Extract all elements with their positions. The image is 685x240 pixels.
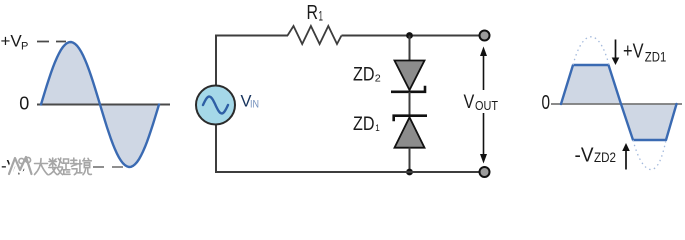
wire zener branch upper bbox=[409, 36, 411, 62]
wire bottom bbox=[215, 171, 480, 173]
arrow down to +Vzd1 level bbox=[612, 40, 620, 66]
output axis line bbox=[551, 103, 682, 105]
resistor R1 bbox=[288, 26, 342, 44]
wire top bbox=[215, 35, 288, 37]
dotted clipped trough bbox=[633, 140, 666, 170]
terminal top right bbox=[480, 31, 490, 41]
dotted clipped peak bbox=[573, 37, 609, 65]
wire between zeners bbox=[409, 92, 411, 116]
svg-text:0: 0 bbox=[542, 92, 551, 114]
Vout arrow lower bbox=[480, 113, 487, 164]
svg-text:ZD: ZD bbox=[353, 63, 375, 85]
svg-text:ZD1: ZD1 bbox=[645, 49, 667, 64]
circuit group bbox=[196, 2, 498, 177]
svg-text:1: 1 bbox=[319, 8, 324, 24]
arrow up from -Vzd2 level bbox=[622, 143, 630, 170]
node junction bottom bbox=[406, 169, 413, 176]
svg-text:1: 1 bbox=[375, 123, 380, 134]
terminal bottom right bbox=[480, 167, 490, 177]
right output waveform group bbox=[542, 37, 683, 170]
node junction top bbox=[406, 32, 413, 39]
svg-text:V: V bbox=[464, 91, 475, 113]
dashed line to peak bbox=[37, 41, 66, 43]
wire top right bbox=[342, 35, 481, 37]
watermark group bbox=[9, 157, 91, 175]
svg-text:+V: +V bbox=[1, 32, 23, 51]
clipped output curve bbox=[561, 65, 677, 140]
svg-text:OUT: OUT bbox=[475, 99, 498, 113]
input axis line bbox=[37, 104, 170, 106]
zener diode ZD2 bbox=[391, 61, 425, 92]
svg-text:P: P bbox=[21, 41, 28, 53]
wire left vertical bbox=[215, 36, 217, 87]
svg-text:+V: +V bbox=[623, 40, 644, 63]
zener diode ZD1 bbox=[394, 116, 427, 148]
svg-text:ZD2: ZD2 bbox=[594, 149, 616, 165]
watermark logo bbox=[9, 157, 32, 174]
svg-text:ZD: ZD bbox=[353, 113, 375, 135]
source VIN circle bbox=[196, 86, 235, 125]
svg-text:R: R bbox=[307, 2, 319, 24]
svg-text:-V: -V bbox=[575, 143, 594, 166]
wire zener branch lower bbox=[409, 148, 411, 173]
output wave fill bbox=[561, 65, 677, 140]
watermark text (stylised CJK strokes) bbox=[35, 158, 92, 175]
svg-text:IN: IN bbox=[250, 99, 259, 111]
svg-text:2: 2 bbox=[375, 73, 381, 85]
source sine symbol bbox=[203, 97, 228, 114]
svg-text:0: 0 bbox=[19, 94, 29, 114]
left input waveform group bbox=[1, 32, 171, 178]
dashed line to trough bbox=[93, 166, 125, 168]
Vout arrow upper bbox=[480, 47, 487, 91]
input sine curve bbox=[41, 42, 159, 167]
input sine fill bbox=[41, 42, 159, 167]
